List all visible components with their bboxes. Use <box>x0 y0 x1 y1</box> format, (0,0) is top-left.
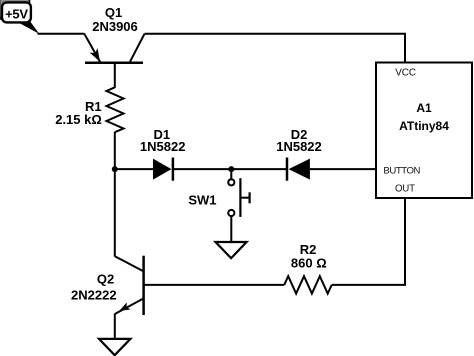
wire: R1 to node A <box>114 132 116 169</box>
wire: Q1 collector to VCC rail <box>145 34 406 63</box>
svg-text:Q1: Q1 <box>105 5 122 20</box>
ground (Q2) <box>99 339 130 355</box>
wire: Q2 emitter to ground <box>114 314 116 339</box>
+5V power flag <box>0 0 39 34</box>
resistor R1 2.15 kOhm <box>55 87 123 132</box>
resistor R2 860 Ohm <box>284 242 332 293</box>
svg-text:2N3906: 2N3906 <box>92 19 138 34</box>
wire: R2 to Q2 base <box>144 284 285 286</box>
wire: SW1 to ground <box>230 216 232 242</box>
svg-text:BUTTON: BUTTON <box>383 166 420 177</box>
diode D1 1N5822 <box>140 127 186 181</box>
wire: IC OUT pin down to R2 <box>332 198 405 285</box>
svg-text:1N5822: 1N5822 <box>140 139 186 154</box>
svg-text:2.15 kΩ: 2.15 kΩ <box>55 112 102 127</box>
node A junction dot <box>112 166 118 172</box>
svg-text:A1: A1 <box>416 101 432 115</box>
transistor Q2 (NPN 2N2222) <box>71 256 144 315</box>
node SW junction dot <box>228 166 234 172</box>
switch SW1 (pushbutton) <box>188 169 249 217</box>
svg-text:Q2: Q2 <box>97 272 114 287</box>
svg-text:OUT: OUT <box>395 184 415 195</box>
wire: node A down to Q2 collector <box>114 169 116 257</box>
wire: node A to D1 anode <box>115 168 153 170</box>
wire: +5V to Q1 emitter <box>38 33 85 35</box>
svg-text:1N5822: 1N5822 <box>276 139 322 154</box>
svg-text:860 Ω: 860 Ω <box>291 256 327 271</box>
ground (SW1) <box>216 242 247 258</box>
wire: D1 cathode to D2 cathode <box>173 168 287 170</box>
svg-text:2N2222: 2N2222 <box>71 287 117 302</box>
wire: D2 anode to IC BUTTON pin <box>310 168 376 170</box>
svg-text:VCC: VCC <box>395 67 416 78</box>
svg-text:ATtiny84: ATtiny84 <box>399 119 449 133</box>
diode D2 1N5822 <box>276 127 322 181</box>
svg-text:SW1: SW1 <box>188 192 216 207</box>
svg-text:+5V: +5V <box>5 7 28 22</box>
IC U1 A1 ATtiny84 <box>376 63 472 199</box>
transistor Q1 (PNP 2N3906) <box>84 5 144 88</box>
